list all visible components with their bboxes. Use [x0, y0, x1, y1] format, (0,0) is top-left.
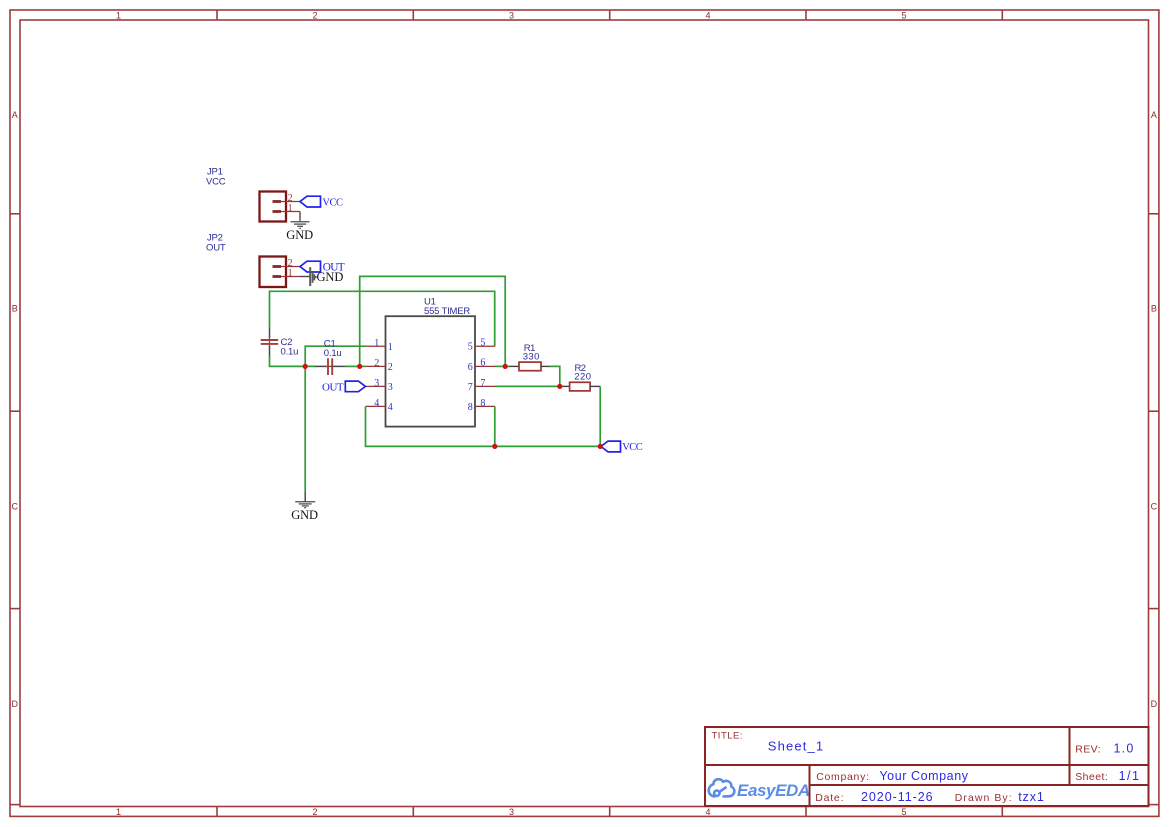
- frame column labels bottom: [116, 807, 907, 817]
- svg-text:0.1u: 0.1u: [281, 347, 299, 358]
- capacitor C1: [315, 358, 346, 375]
- wire C2 bottom to node A: [270, 356, 315, 366]
- ic U1 pin 3: [366, 385, 386, 387]
- svg-text:D: D: [1151, 699, 1158, 709]
- svg-text:4: 4: [705, 807, 710, 817]
- wire C1 right to pin 2: [346, 365, 366, 367]
- EasyEDA logo cloud: [709, 779, 735, 796]
- svg-text:Sheet_1: Sheet_1: [768, 739, 824, 754]
- op-amp U1 body: [386, 316, 476, 426]
- ic U1 pin 8 numbers: [468, 398, 486, 413]
- svg-text:7: 7: [480, 378, 485, 389]
- svg-text:OUT: OUT: [206, 242, 226, 253]
- svg-text:5: 5: [901, 807, 906, 817]
- svg-text:Company:: Company:: [816, 771, 869, 783]
- svg-text:3: 3: [509, 11, 514, 21]
- svg-text:8: 8: [480, 398, 485, 409]
- svg-text:1: 1: [288, 268, 293, 279]
- svg-text:A: A: [12, 110, 18, 120]
- svg-text:C: C: [1151, 502, 1158, 512]
- wire net trig loop pin6 to pin2: [360, 276, 506, 366]
- connector JP1 pin 1: [273, 210, 301, 213]
- ic U1 pin 2: [366, 365, 386, 367]
- frame column labels top: [116, 11, 907, 21]
- ground symbol at JP1: [291, 222, 310, 229]
- wire node A down to ground: [304, 366, 306, 491]
- connector JP1 pin 2: [273, 200, 301, 203]
- ic U1 pin 1: [366, 345, 386, 347]
- net flag OUT at JP2: [300, 261, 345, 274]
- title block border: [705, 727, 1149, 806]
- ic U1 pin 4 numbers: [374, 398, 392, 413]
- svg-text:Drawn By:: Drawn By:: [955, 792, 1013, 804]
- wire pin 6 to R1: [495, 365, 510, 367]
- connector JP2 pin 2: [273, 265, 301, 268]
- svg-text:VCC: VCC: [206, 177, 226, 188]
- ground symbol at bottom: [295, 502, 315, 508]
- svg-text:D: D: [11, 699, 18, 709]
- svg-text:B: B: [1151, 304, 1157, 314]
- ic U1 pin 5 numbers: [468, 338, 486, 353]
- ic U1 pin 1 numbers: [374, 338, 392, 353]
- junction node A: [303, 364, 308, 369]
- svg-text:C: C: [11, 502, 18, 512]
- svg-text:1: 1: [374, 338, 379, 349]
- svg-text:2: 2: [312, 807, 317, 817]
- svg-text:0.1u: 0.1u: [324, 348, 342, 359]
- connector JP2 pin 1: [273, 275, 301, 278]
- svg-text:B: B: [12, 304, 18, 314]
- ic U1 pin 3 numbers: [374, 378, 392, 393]
- capacitor C2: [261, 328, 279, 357]
- junction VCC rail: [598, 444, 603, 449]
- ic U1 pin 6 numbers: [468, 358, 486, 373]
- junction pin 7 net: [557, 384, 562, 389]
- svg-text:4: 4: [388, 402, 393, 413]
- frame row ticks left: [10, 214, 20, 805]
- wire pin 4 to bottom rail: [366, 406, 601, 446]
- svg-text:2: 2: [312, 11, 317, 21]
- ic U1 pin 2 numbers: [374, 358, 392, 373]
- svg-text:330: 330: [523, 352, 540, 363]
- ground stem at bottom: [304, 491, 306, 501]
- svg-text:2020-11-26: 2020-11-26: [861, 790, 934, 804]
- svg-text:Your Company: Your Company: [879, 769, 968, 783]
- wire pin 7 to R2: [495, 385, 563, 387]
- ic U1 pin 7 numbers: [468, 378, 486, 393]
- svg-text:GND: GND: [286, 228, 313, 242]
- junction node B pin2: [357, 364, 362, 369]
- svg-text:6: 6: [468, 362, 473, 373]
- connector JP2 body: [260, 257, 287, 288]
- svg-text:VCC: VCC: [322, 197, 343, 208]
- svg-text:5: 5: [901, 11, 906, 21]
- resistor R1: [510, 362, 550, 371]
- svg-text:Sheet:: Sheet:: [1075, 771, 1108, 783]
- wire pin 8 down: [494, 406, 496, 446]
- wire R1 to pin7 net: [550, 366, 560, 386]
- ground symbol at JP2 rotated: [310, 267, 316, 286]
- svg-text:3: 3: [374, 378, 379, 389]
- ic U1 pin 6: [475, 365, 495, 367]
- svg-text:1: 1: [116, 11, 121, 21]
- svg-text:tzx1: tzx1: [1018, 790, 1045, 804]
- svg-text:4: 4: [374, 398, 379, 409]
- svg-text:VCC: VCC: [622, 442, 643, 453]
- frame column ticks top: [217, 10, 1002, 20]
- frame column ticks bottom: [217, 807, 1002, 817]
- resistor R2: [563, 382, 600, 391]
- junction pin 6: [503, 364, 508, 369]
- svg-text:8: 8: [468, 402, 473, 413]
- connector JP1 body: [260, 192, 287, 222]
- frame row ticks right: [1149, 214, 1159, 805]
- svg-text:3: 3: [509, 807, 514, 817]
- svg-text:220: 220: [574, 371, 591, 382]
- wire net CV from C2 top to pin 5: [270, 291, 495, 346]
- svg-text:4: 4: [705, 11, 710, 21]
- ic U1 pin 5: [475, 345, 495, 347]
- svg-text:5: 5: [468, 342, 473, 353]
- net flag VCC at JP1: [300, 196, 343, 208]
- svg-text:TITLE:: TITLE:: [712, 731, 744, 742]
- wire pin 1 branch: [305, 346, 365, 366]
- svg-text:EasyEDA: EasyEDA: [737, 781, 810, 800]
- net flag OUT at pin 3: [322, 381, 365, 394]
- svg-text:1: 1: [388, 342, 393, 353]
- svg-text:GND: GND: [317, 270, 344, 284]
- wire R2 down to rail: [599, 386, 601, 446]
- svg-text:REV:: REV:: [1075, 744, 1101, 756]
- net flag VCC at rail: [601, 441, 643, 453]
- svg-text:3: 3: [388, 382, 393, 393]
- svg-text:1/1: 1/1: [1119, 769, 1141, 783]
- svg-text:Date:: Date:: [815, 792, 844, 804]
- svg-text:1: 1: [116, 807, 121, 817]
- svg-text:555 TIMER: 555 TIMER: [424, 306, 470, 317]
- frame row labels left: [11, 110, 18, 709]
- ic U1 pin 7: [475, 385, 495, 387]
- svg-text:5: 5: [480, 338, 485, 349]
- svg-text:1.0: 1.0: [1114, 742, 1135, 756]
- ic U1 pin 4: [366, 405, 386, 407]
- svg-text:1: 1: [288, 203, 293, 214]
- wire JP1 pin1 to ground: [299, 212, 301, 215]
- svg-text:OUT: OUT: [322, 382, 344, 394]
- svg-text:A: A: [1151, 110, 1157, 120]
- wire JP2 pin1 to ground: [300, 276, 310, 278]
- frame row labels right: [1151, 110, 1158, 709]
- svg-text:2: 2: [374, 358, 379, 369]
- svg-text:GND: GND: [291, 508, 318, 522]
- ic U1 pin 8: [475, 405, 495, 407]
- svg-text:2: 2: [388, 362, 393, 373]
- junction pin8 rail: [492, 444, 497, 449]
- svg-text:6: 6: [480, 358, 485, 369]
- svg-text:7: 7: [468, 382, 473, 393]
